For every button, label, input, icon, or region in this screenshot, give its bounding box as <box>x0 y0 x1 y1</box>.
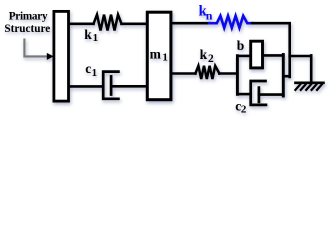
svg-text:k: k <box>84 27 92 42</box>
damper c2 piston <box>258 88 261 102</box>
damper c2 cup <box>251 81 266 105</box>
ground rail down <box>310 55 313 82</box>
svg-text:n: n <box>206 8 213 22</box>
wire left bar to damper c2 <box>237 93 250 96</box>
svg-text:1: 1 <box>92 67 98 79</box>
damper c1 cup <box>103 72 118 99</box>
svg-text:c: c <box>85 61 91 76</box>
svg-text:2: 2 <box>241 103 247 115</box>
damper c1 piston <box>110 76 113 94</box>
wire spring k2 to left bar <box>219 72 236 75</box>
wire m1 to spring k2 <box>172 72 196 75</box>
wire damper c1 to mass m1 <box>112 85 147 88</box>
connector right bar to rail <box>283 75 289 78</box>
spring kn (blue) <box>209 16 252 28</box>
wire kn to corner and rail down <box>252 23 289 77</box>
svg-text:1: 1 <box>93 32 99 44</box>
ground bar <box>296 81 324 84</box>
svg-text:2: 2 <box>208 53 214 65</box>
wire m1 to spring kn <box>172 22 210 25</box>
svg-text:k: k <box>200 47 208 62</box>
primary structure wall <box>54 11 69 101</box>
leader arrowhead <box>47 53 54 60</box>
leader line from label to wall (gray) <box>24 40 47 57</box>
svg-text:Structure: Structure <box>4 23 50 35</box>
inerter b block <box>251 41 263 68</box>
left bar of parallel combination <box>236 56 239 95</box>
mass m1 <box>147 12 171 100</box>
wire wall to spring k1 <box>69 22 94 25</box>
wire wall to damper c1 <box>69 85 102 88</box>
svg-text:m: m <box>150 47 162 62</box>
spring k2 <box>195 66 219 79</box>
wire inerter b to right bar <box>264 54 284 57</box>
svg-text:Primary: Primary <box>9 10 48 22</box>
spring k1 <box>94 15 122 31</box>
wire rail to ground corner <box>290 55 312 58</box>
wire damper c2 to right bar <box>259 93 283 96</box>
right bar of parallel combination <box>282 55 285 97</box>
wire left bar to inerter b <box>237 55 249 58</box>
svg-text:1: 1 <box>162 52 168 64</box>
svg-text:b: b <box>237 38 245 53</box>
wire spring k1 to mass m1 <box>122 22 147 25</box>
ground hatch lines <box>295 84 321 90</box>
